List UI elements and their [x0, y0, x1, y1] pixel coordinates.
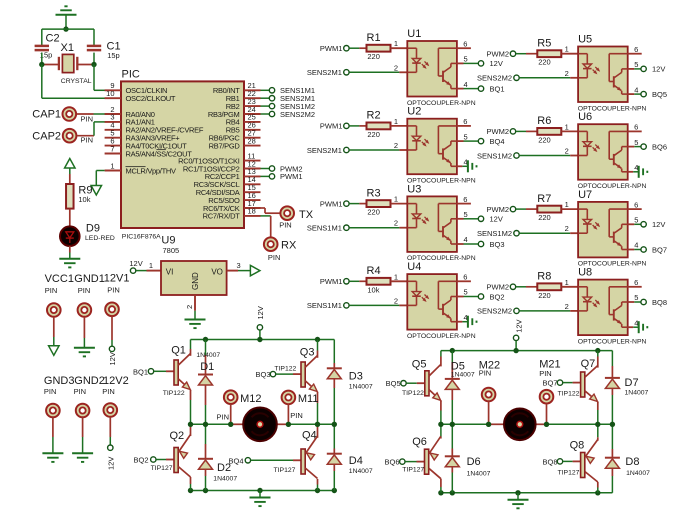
PIC pin 14 stub: [244, 183, 261, 185]
terminal BQ7 (U7 pin 4): [628, 249, 635, 251]
svg-text:BQ4: BQ4: [490, 137, 505, 146]
svg-text:BQ5: BQ5: [652, 90, 667, 99]
resistor R5 220: [526, 53, 537, 55]
svg-text:1N4007: 1N4007: [349, 384, 373, 391]
node crystal-top junction: [63, 26, 68, 31]
svg-text:VCC1: VCC1: [45, 273, 74, 285]
ground (U6 pin 4): [628, 171, 634, 173]
svg-text:1: 1: [565, 200, 569, 209]
wire osc top rail: [42, 28, 94, 30]
svg-text:Q8: Q8: [570, 440, 585, 452]
node mid rail: [544, 422, 549, 427]
svg-text:GND: GND: [191, 272, 200, 290]
U7 pin 6 stub: [628, 208, 642, 210]
svg-text:2: 2: [565, 302, 569, 311]
node top rail Q7: [595, 348, 600, 353]
svg-text:12V: 12V: [256, 306, 265, 319]
svg-text:1: 1: [110, 161, 114, 170]
node top rail D1: [203, 337, 208, 342]
diode D3 1N4007: [333, 340, 335, 364]
PIC pin 21 stub: [244, 89, 261, 91]
wire C1 bottom: [93, 53, 95, 65]
svg-text:TIP122: TIP122: [274, 365, 296, 372]
svg-text:220: 220: [538, 291, 551, 300]
wire Q4 collector to bottom: [317, 479, 319, 485]
terminal BQ6 (U6 pin 5): [628, 146, 635, 148]
svg-text:220: 220: [367, 208, 380, 217]
wire Q1 collector to 12V rail: [190, 340, 192, 350]
PIC pin 5 stub: [105, 137, 121, 139]
svg-text:PIN: PIN: [479, 369, 492, 378]
svg-text:PWM2: PWM2: [487, 283, 510, 292]
svg-text:D7: D7: [625, 377, 639, 389]
wire right bridge top rail: [441, 350, 613, 352]
svg-text:5: 5: [634, 60, 638, 69]
svg-text:12V: 12V: [107, 457, 116, 470]
svg-text:PIN: PIN: [81, 114, 94, 123]
svg-text:CRYSTAL: CRYSTAL: [61, 78, 92, 85]
svg-text:PIN: PIN: [102, 387, 115, 396]
node mid rail: [332, 422, 337, 427]
svg-text:18: 18: [248, 207, 256, 216]
wire CAP1 to RA0: [77, 113, 94, 115]
svg-text:R1: R1: [367, 32, 381, 44]
node top rail 12V: [257, 337, 262, 342]
wire Q3 collector to 12V rail: [317, 340, 319, 351]
svg-text:SENS2M1: SENS2M1: [307, 68, 342, 77]
svg-text:12V: 12V: [108, 352, 117, 365]
terminal BQ2 (U4 pin 5): [457, 296, 464, 298]
node mid rail: [315, 422, 320, 427]
svg-text:2: 2: [394, 296, 398, 305]
node bottom rail: [450, 490, 455, 495]
svg-text:6: 6: [463, 273, 467, 282]
svg-text:6: 6: [463, 39, 467, 48]
node mid rail: [228, 422, 233, 427]
svg-text:1: 1: [565, 45, 569, 54]
resistor R2 220: [359, 125, 366, 127]
wire left bridge top rail: [191, 339, 335, 341]
svg-text:SENS2M1: SENS2M1: [307, 146, 342, 155]
svg-text:GND1: GND1: [74, 273, 105, 285]
svg-text:D4: D4: [349, 455, 363, 467]
diode D2 1N4007: [205, 424, 207, 444]
node mid rail: [286, 422, 291, 427]
PIC pin 15 stub: [244, 191, 261, 193]
ground (U8 pin 4): [628, 326, 634, 328]
svg-text:2: 2: [394, 63, 398, 72]
wire Q6 emitter from mid: [440, 424, 442, 437]
terminal BQ5 (U5 pin 4): [628, 93, 635, 95]
svg-text:BQ3: BQ3: [255, 370, 270, 379]
svg-text:TIP122: TIP122: [558, 391, 580, 398]
node X1 right: [91, 62, 96, 67]
PIC pin 23 stub: [244, 105, 261, 107]
capacitor C1: [87, 45, 101, 48]
wire Q6 collector to bottom: [440, 479, 442, 487]
node top rail Q3: [315, 337, 320, 342]
PIC pin 10 stub: [105, 97, 121, 99]
svg-text:3: 3: [237, 261, 241, 270]
svg-text:2: 2: [565, 147, 569, 156]
svg-text:6: 6: [463, 117, 467, 126]
wire ground to osc net: [65, 15, 67, 29]
diode D5 1N4007: [451, 351, 453, 362]
PIC pin 2 stub: [105, 113, 121, 115]
wire D9 to ground: [69, 246, 71, 253]
pin M11: [282, 391, 296, 405]
ground below GND2: [72, 452, 93, 454]
svg-text:OSC2/CLKOUT: OSC2/CLKOUT: [126, 94, 176, 103]
LED D9: [60, 226, 80, 246]
svg-text:BQ3: BQ3: [490, 240, 505, 249]
svg-text:5: 5: [634, 138, 638, 147]
pin M12: [224, 390, 238, 404]
terminal SENS1M2: [261, 105, 270, 107]
node X1 left: [39, 62, 44, 67]
svg-text:CAP1: CAP1: [32, 109, 61, 121]
svg-text:MCLR/Vpp/THV: MCLR/Vpp/THV: [126, 166, 176, 175]
svg-text:SENS1M2: SENS1M2: [477, 229, 512, 238]
wire right bridge bottom rail: [441, 492, 613, 494]
svg-text:PIN: PIN: [268, 253, 281, 262]
svg-text:BQ6: BQ6: [652, 142, 667, 151]
terminal 12V (U7 pin 5): [628, 223, 635, 225]
wire Q4 emitter from mid: [317, 424, 319, 438]
svg-text:SENS2M2: SENS2M2: [477, 74, 512, 83]
svg-text:1N4007: 1N4007: [626, 470, 650, 477]
svg-text:15p: 15p: [107, 51, 120, 60]
svg-text:220: 220: [538, 135, 551, 144]
PIC pin 3 stub: [105, 121, 121, 123]
svg-text:U9: U9: [161, 235, 175, 247]
svg-text:1: 1: [394, 195, 398, 204]
svg-text:VO: VO: [211, 267, 223, 276]
voltage regulator U9 7805: [147, 270, 162, 272]
svg-text:BQ1: BQ1: [490, 84, 505, 93]
svg-text:1N4007: 1N4007: [349, 468, 373, 475]
resistor R1 220: [359, 47, 366, 49]
ground (U4 pin 4): [457, 321, 463, 323]
svg-text:PIN: PIN: [45, 286, 58, 295]
svg-text:2: 2: [394, 219, 398, 228]
svg-text:TIP127: TIP127: [151, 465, 173, 472]
motor M1 (left): [231, 423, 244, 425]
svg-text:5: 5: [634, 216, 638, 225]
ground below GND1: [74, 347, 95, 349]
svg-text:PWM2: PWM2: [487, 127, 510, 136]
wire Q5 emitter to mid: [440, 400, 442, 410]
svg-text:2: 2: [394, 141, 398, 150]
svg-text:U5: U5: [578, 34, 592, 46]
svg-text:220: 220: [538, 58, 551, 67]
svg-text:6: 6: [634, 123, 638, 132]
svg-text:BQ7: BQ7: [542, 379, 557, 388]
wire Q8 emitter from mid: [597, 424, 599, 437]
svg-text:R4: R4: [367, 265, 381, 277]
wire Q3 emitter to mid: [317, 392, 319, 403]
node mid rail: [486, 422, 491, 427]
svg-text:BQ7: BQ7: [652, 245, 667, 254]
svg-text:4: 4: [634, 85, 638, 94]
wire to C1 top: [93, 29, 95, 46]
svg-text:U6: U6: [578, 111, 592, 123]
node bottom rail: [257, 488, 262, 493]
wire Q8 collector to bottom: [597, 482, 599, 488]
svg-text:5: 5: [634, 293, 638, 302]
svg-text:R2: R2: [367, 110, 381, 122]
U5 pin 6 stub: [628, 53, 642, 55]
svg-text:5: 5: [464, 55, 468, 64]
svg-text:1N4007: 1N4007: [196, 352, 220, 359]
svg-text:Q1: Q1: [171, 345, 186, 357]
wire mid rail left: [441, 423, 504, 425]
node mid rail: [188, 422, 193, 427]
terminal BQ8 (U8 pin 5): [628, 301, 635, 303]
terminal 12V (below 12V1): [109, 346, 114, 351]
svg-text:1: 1: [394, 39, 398, 48]
ground below 7805: [185, 319, 206, 321]
PIC pin 6 stub: [105, 145, 121, 147]
svg-text:220: 220: [538, 213, 551, 222]
svg-text:PIN: PIN: [74, 387, 87, 396]
svg-text:RB7/PGD: RB7/PGD: [209, 141, 241, 150]
svg-text:220: 220: [367, 52, 380, 61]
svg-text:PIN: PIN: [78, 286, 91, 295]
svg-text:D6: D6: [467, 456, 481, 468]
svg-text:PWM1: PWM1: [280, 172, 303, 181]
svg-text:X1: X1: [61, 42, 74, 54]
svg-text:D9: D9: [86, 223, 100, 235]
svg-text:12V: 12V: [515, 319, 524, 332]
U8 pin 6 stub: [628, 286, 642, 288]
svg-text:M11: M11: [298, 393, 319, 405]
node bottom rail: [332, 488, 337, 493]
U1 pin 6 stub: [457, 47, 471, 49]
svg-text:PWM2: PWM2: [487, 205, 510, 214]
U3 pin 6 stub: [457, 203, 471, 205]
svg-text:R3: R3: [367, 187, 381, 199]
svg-text:6: 6: [634, 278, 638, 287]
svg-text:TX: TX: [299, 209, 314, 221]
svg-text:BQ2: BQ2: [490, 292, 505, 301]
svg-text:12V: 12V: [652, 220, 665, 229]
node bottom rail: [595, 490, 600, 495]
svg-text:RC7/RX/DT: RC7/RX/DT: [203, 212, 241, 221]
svg-text:D8: D8: [625, 456, 639, 468]
svg-text:PIC: PIC: [122, 69, 140, 81]
svg-text:PWM2: PWM2: [487, 50, 510, 59]
node bottom rail: [203, 488, 208, 493]
svg-text:SENS1M2: SENS1M2: [477, 151, 512, 160]
resistor R6 220: [526, 130, 537, 132]
pin RX: [261, 215, 271, 217]
svg-text:PIN: PIN: [217, 412, 230, 421]
diode D6 1N4007: [451, 424, 453, 448]
svg-text:Q7: Q7: [581, 358, 596, 370]
node mid rail: [595, 422, 600, 427]
ground (left bridge): [259, 491, 261, 498]
ground below D9: [59, 258, 80, 260]
terminal 12V (U1 pin 5): [457, 62, 464, 64]
svg-text:2: 2: [565, 69, 569, 78]
PIC pin 24 stub: [244, 113, 261, 115]
wire osc1 to PIC pin9: [93, 65, 95, 91]
svg-text:R8: R8: [537, 271, 551, 283]
svg-text:1: 1: [149, 261, 153, 270]
PIC pin 7 stub: [105, 153, 121, 155]
svg-text:PIN: PIN: [279, 221, 292, 230]
svg-text:PIN: PIN: [107, 286, 120, 295]
diode D4 1N4007: [333, 424, 335, 448]
svg-text:1N4007: 1N4007: [625, 390, 649, 397]
wire mid rail right: [535, 423, 612, 425]
wire Q1 emitter to mid: [190, 390, 192, 400]
wire mid rail left: [191, 423, 245, 425]
U4 pin 6 stub: [457, 280, 471, 282]
PIC pin 18 stub: [244, 215, 261, 217]
svg-text:1N4007: 1N4007: [467, 471, 491, 478]
wire to C2 top: [41, 29, 43, 46]
svg-text:10k: 10k: [367, 285, 379, 294]
svg-text:GND2: GND2: [74, 375, 105, 387]
PIC pin 13 stub: [244, 175, 261, 177]
svg-text:D3: D3: [349, 371, 363, 383]
svg-text:SENS2M2: SENS2M2: [280, 110, 315, 119]
node bottom rail: [515, 490, 520, 495]
svg-text:PWM1: PWM1: [320, 44, 343, 53]
svg-text:PWM1: PWM1: [320, 122, 343, 131]
7805 pin 2 to ground: [194, 295, 196, 311]
svg-text:GND3: GND3: [44, 375, 75, 387]
wire Q5 collector to 12V rail: [440, 351, 442, 357]
terminal PWM1: [261, 175, 270, 177]
svg-text:Q3: Q3: [300, 347, 315, 359]
terminal BQ3 (U3 pin 4): [457, 243, 464, 245]
resistor R8 220: [526, 286, 537, 288]
svg-text:D2: D2: [217, 462, 231, 474]
terminal SENS2M2: [261, 113, 270, 115]
node bottom rail: [188, 488, 193, 493]
svg-text:TIP122: TIP122: [402, 390, 424, 397]
svg-text:CAP2: CAP2: [32, 130, 61, 142]
svg-text:12V2: 12V2: [103, 375, 129, 387]
svg-text:BQ6: BQ6: [384, 458, 399, 467]
svg-text:Q5: Q5: [412, 359, 427, 371]
svg-text:TIP127: TIP127: [402, 467, 424, 474]
terminal 12V (below 12V2): [108, 445, 113, 450]
svg-text:RX: RX: [281, 240, 297, 252]
svg-text:220: 220: [367, 130, 380, 139]
U2 pin 6 stub: [457, 125, 471, 127]
resistor R4 10k: [359, 280, 366, 282]
node bottom rail: [315, 488, 320, 493]
svg-text:5: 5: [464, 288, 468, 297]
svg-text:PWM1: PWM1: [320, 277, 343, 286]
ground (crystal top): [56, 14, 77, 16]
wire left bridge bottom rail: [191, 490, 335, 492]
svg-text:7805: 7805: [163, 246, 180, 255]
power symbol VCC (R9 top): [65, 159, 75, 169]
PIC pin 28 stub: [244, 145, 261, 147]
terminal PWM2: [261, 168, 270, 170]
svg-text:PWM1: PWM1: [320, 199, 343, 208]
node top rail D5: [450, 348, 455, 353]
terminal 12V (U3 pin 5): [457, 218, 464, 220]
svg-text:12V: 12V: [490, 59, 503, 68]
svg-text:BQ5: BQ5: [386, 379, 401, 388]
svg-text:2: 2: [185, 305, 194, 309]
svg-text:R7: R7: [537, 193, 551, 205]
svg-text:BQ2: BQ2: [133, 456, 148, 465]
node mid rail: [450, 422, 455, 427]
svg-text:BQ8: BQ8: [542, 457, 557, 466]
ground (U2 pin 4): [457, 165, 463, 167]
resistor R9: [69, 174, 71, 184]
diode D8 1N4007: [611, 424, 613, 449]
pin TX: [261, 207, 266, 209]
svg-text:5: 5: [464, 132, 468, 141]
svg-text:LED-RED: LED-RED: [85, 235, 115, 242]
svg-text:1N4007: 1N4007: [451, 372, 475, 379]
svg-text:U4: U4: [407, 261, 421, 273]
svg-text:BQ1: BQ1: [133, 367, 148, 376]
svg-text:12V: 12V: [652, 65, 665, 74]
PIC pin 25 stub: [244, 121, 261, 123]
svg-text:1: 1: [394, 117, 398, 126]
svg-text:2: 2: [565, 224, 569, 233]
7805 pin 3 output arrow: [227, 270, 238, 272]
node mid rail: [438, 422, 443, 427]
node mid rail: [203, 422, 208, 427]
svg-text:R5: R5: [537, 38, 551, 50]
ground (right bridge): [517, 493, 519, 500]
PIC pin 26 stub: [244, 129, 261, 131]
svg-text:D1: D1: [200, 361, 214, 373]
diode D7 1N4007: [611, 351, 613, 366]
svg-text:R6: R6: [537, 115, 551, 127]
svg-text:U1: U1: [407, 28, 421, 40]
PIC pin 11 stub: [244, 160, 261, 162]
svg-text:U3: U3: [407, 183, 421, 195]
svg-text:1: 1: [394, 272, 398, 281]
svg-text:SENS1M1: SENS1M1: [307, 224, 342, 233]
svg-text:1N4007: 1N4007: [213, 476, 237, 483]
PIC pin 4 stub: [105, 129, 121, 131]
wire Q2 emitter from mid: [190, 424, 192, 436]
svg-text:6: 6: [463, 195, 467, 204]
svg-text:PIN: PIN: [539, 369, 552, 378]
power symbol MCLR pull-down: [96, 170, 104, 172]
svg-text:4: 4: [634, 241, 638, 250]
ground below GND3: [42, 452, 63, 454]
wire Q7 collector to 12V rail: [597, 351, 599, 357]
svg-text:TIP122: TIP122: [163, 390, 185, 397]
svg-text:SENS2M2: SENS2M2: [477, 307, 512, 316]
motor M2 (right): [489, 423, 505, 425]
PIC pin 27 stub: [244, 137, 261, 139]
wire R9 to D9: [69, 209, 71, 227]
svg-text:U8: U8: [578, 267, 592, 279]
wire Q7 emitter to mid: [597, 402, 599, 411]
svg-text:PIN: PIN: [44, 387, 57, 396]
svg-text:SENS1M1: SENS1M1: [307, 301, 342, 310]
terminal SENS1M1: [261, 89, 270, 91]
node bottom rail: [438, 490, 443, 495]
wire Q2 collector to bottom: [190, 477, 192, 484]
wire C2 bottom: [41, 53, 43, 65]
svg-text:4: 4: [464, 80, 468, 89]
